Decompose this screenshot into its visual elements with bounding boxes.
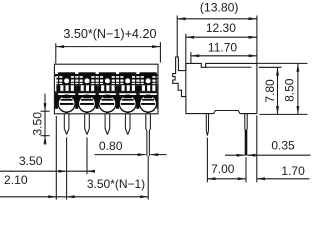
wire entry openings — [55, 95, 160, 114]
svg-text:8.50: 8.50 — [283, 78, 297, 102]
svg-text:12.30: 12.30 — [206, 21, 236, 35]
extension lines bottom front — [56, 116, 148, 200]
dimension (13.80) — [177, 0, 257, 63]
mechanism lower strip — [54, 91, 160, 95]
pin P5 front (extended) — [146, 114, 151, 156]
svg-text:3.50*(N−1)+4.20: 3.50*(N−1)+4.20 — [63, 27, 156, 41]
pin right side view (extended) — [245, 113, 247, 129]
pin P1 front — [64, 114, 69, 135]
svg-text:7.00: 7.00 — [211, 162, 235, 176]
pin P3 front — [105, 114, 110, 135]
svg-text:11.70: 11.70 — [208, 40, 237, 54]
front view body — [54, 64, 158, 114]
dimensions 7.80 and 8.50 right side — [257, 63, 307, 114]
dimension 12.30 — [186, 21, 257, 96]
pin P2 front — [85, 114, 90, 135]
svg-text:1.70: 1.70 — [281, 164, 305, 178]
dimension 3.50 pitch — [0, 154, 95, 173]
svg-text:7.80: 7.80 — [263, 79, 277, 103]
side view groove line — [206, 66, 252, 68]
dimension 11.70 — [191, 40, 257, 63]
dimension 0.80 pin width — [95, 139, 167, 156]
svg-text:3.50*(N−1): 3.50*(N−1) — [87, 177, 145, 191]
dimension 3.50 pin length vertical — [30, 94, 49, 146]
svg-text:0.80: 0.80 — [99, 139, 123, 153]
dimensions 7.00 and 1.70 bottom — [207, 115, 309, 182]
svg-text:3.50: 3.50 — [19, 154, 43, 168]
svg-text:2.10: 2.10 — [4, 173, 28, 187]
pin left side view — [206, 113, 208, 135]
pin P4 front — [125, 114, 130, 135]
dimension 0.35 pin thickness — [225, 139, 311, 157]
svg-text:0.35: 0.35 — [271, 139, 295, 153]
dimension 2.10 and 3.50*(N-1) bottom — [0, 173, 148, 199]
terminal mechanism band — [54, 72, 158, 91]
svg-text:3.50: 3.50 — [30, 112, 44, 136]
svg-text:(13.80): (13.80) — [200, 0, 239, 14]
side view body outline — [173, 57, 257, 114]
dimension 3.50*(N-1)+4.20 top — [56, 27, 161, 63]
